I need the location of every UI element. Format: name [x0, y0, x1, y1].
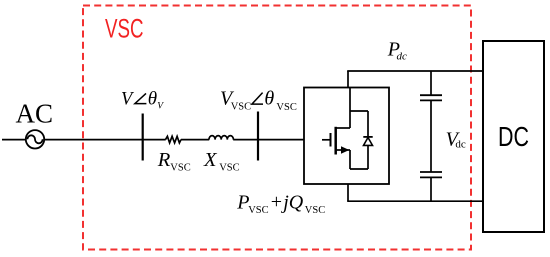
svg-text:R: R [157, 149, 171, 171]
collector lead [349, 88, 351, 128]
label XVSC [203, 149, 240, 174]
VSC dashed boundary box [83, 6, 471, 250]
label V angle thetaV [121, 89, 164, 112]
channel bar [334, 127, 337, 155]
svg-text:VSC: VSC [231, 102, 251, 113]
svg-text:VSC: VSC [219, 163, 239, 174]
diode D1 [363, 111, 372, 169]
resistor RVSC [166, 136, 182, 143]
svg-text:VSC: VSC [276, 102, 296, 113]
label PVSC + jQVSC [236, 191, 325, 216]
wire AC to resistor [2, 139, 166, 141]
gate lead [322, 139, 331, 141]
label Vdc [446, 129, 466, 151]
svg-text:jQ: jQ [280, 191, 304, 213]
inductor XVSC [209, 136, 233, 140]
label Pdc [387, 38, 407, 62]
svg-text:dc: dc [397, 51, 408, 63]
gate bar [330, 133, 332, 147]
svg-text:+: + [271, 191, 282, 213]
transistor Q1 [322, 88, 350, 169]
source vertical [349, 150, 351, 169]
node bus1 V [142, 114, 144, 161]
wire bottom lead [347, 184, 349, 201]
wire dc bottom [347, 200, 483, 202]
svg-text:VSC: VSC [105, 14, 144, 44]
ac source G1 [26, 130, 44, 148]
svg-text:dc: dc [455, 139, 466, 151]
drain horizontal [336, 127, 350, 129]
svg-text:θ: θ [148, 89, 157, 110]
svg-text:VSC: VSC [305, 205, 325, 216]
svg-text:θ: θ [264, 87, 274, 109]
svg-text:X: X [203, 149, 218, 171]
wire top lead [347, 71, 349, 88]
svg-text:V: V [121, 90, 135, 110]
node bus2 VVSC [257, 112, 259, 161]
wire resistor to inductor [181, 139, 209, 141]
wire dc top [347, 70, 483, 72]
wire bottom connection to diode [350, 168, 368, 170]
source arrow [336, 149, 350, 151]
DC box [483, 41, 544, 232]
capacitor C2 [420, 172, 442, 201]
converter box U1 [304, 88, 389, 185]
svg-text:DC: DC [498, 121, 529, 152]
label VVSC angle thetaVSC [220, 87, 297, 113]
wire cap middle [430, 100, 432, 172]
label RVSC [157, 149, 191, 174]
svg-text:AC: AC [16, 98, 54, 128]
svg-text:VSC: VSC [170, 163, 190, 174]
wire top connection to diode [350, 110, 368, 112]
capacitor C1 [420, 71, 442, 100]
wire inductor to converter [233, 139, 304, 141]
svg-text:V: V [157, 102, 164, 112]
svg-text:VSC: VSC [248, 205, 268, 216]
